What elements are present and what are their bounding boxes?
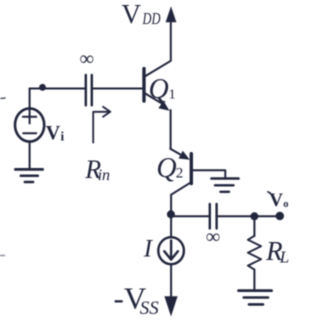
svg-text:∞: ∞ (206, 226, 220, 248)
svg-text:V: V (122, 0, 142, 29)
svg-text:2: 2 (176, 166, 184, 182)
svg-text:Q: Q (156, 153, 176, 184)
svg-text:Q: Q (149, 74, 169, 105)
svg-text:i: i (61, 128, 65, 143)
svg-text:1: 1 (169, 88, 176, 103)
svg-text:I: I (143, 236, 154, 263)
svg-text:V: V (46, 122, 61, 144)
svg-text:in: in (98, 167, 110, 184)
svg-text:SS: SS (140, 298, 160, 319)
svg-text:DD: DD (142, 9, 161, 28)
svg-text:V: V (269, 190, 283, 211)
svg-text:o: o (283, 199, 288, 210)
svg-text:L: L (279, 248, 289, 267)
svg-text:∞: ∞ (80, 48, 94, 70)
